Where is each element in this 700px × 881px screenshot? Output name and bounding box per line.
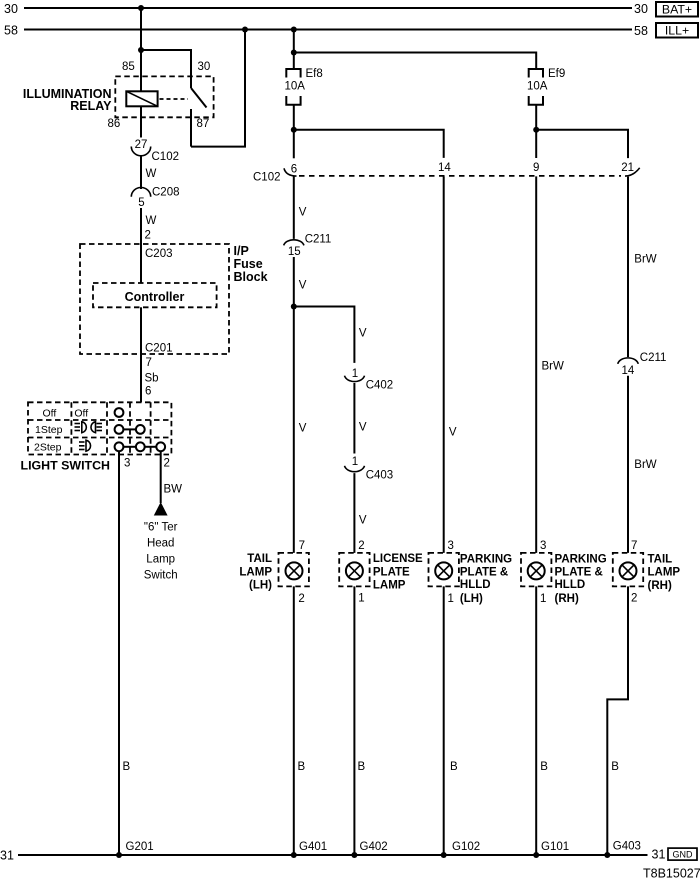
svg-text:V: V (299, 423, 307, 435)
svg-text:30: 30 (634, 2, 648, 16)
svg-text:3: 3 (448, 540, 454, 552)
ground G102 (441, 841, 480, 858)
svg-text:G403: G403 (613, 841, 641, 853)
wire parking LH to G102 (444, 586, 458, 855)
svg-text:5: 5 (138, 197, 144, 209)
light switch column divider 2 (106, 402, 108, 454)
svg-text:1: 1 (352, 456, 358, 468)
wire bus 58 to Ef8 (293, 30, 295, 70)
svg-text:3: 3 (540, 540, 546, 552)
svg-text:LAMP: LAMP (239, 566, 272, 578)
wire W between C102 and C208 (141, 156, 157, 189)
wire light switch pin 3 to G201 (118, 451, 120, 855)
svg-text:2: 2 (298, 593, 304, 605)
svg-text:TAIL: TAIL (247, 553, 272, 565)
svg-text:Switch: Switch (144, 570, 178, 582)
wire W into I/P fuse block pin 2 (141, 208, 157, 244)
svg-text:B: B (298, 761, 306, 773)
svg-text:V: V (449, 427, 457, 439)
ground G201 (116, 841, 154, 858)
ground G101 (533, 841, 569, 858)
wire parking RH to G101 (536, 586, 548, 855)
svg-text:LICENSE: LICENSE (373, 553, 423, 565)
svg-text:7: 7 (146, 357, 152, 369)
light switch column divider 1 (70, 402, 72, 454)
connector row C102 (253, 168, 640, 184)
connector C102 pin 27 (131, 139, 179, 163)
I/P fuse block dashed box (80, 244, 229, 354)
svg-text:V: V (359, 328, 367, 340)
svg-text:HLLD: HLLD (460, 579, 491, 591)
svg-text:B: B (123, 761, 131, 773)
junction relay feed split (138, 47, 144, 53)
svg-text:Ef9: Ef9 (548, 68, 565, 80)
svg-text:(LH): (LH) (249, 579, 272, 591)
lamp PARKING PLATE & HLLD (RH) (521, 540, 607, 605)
svg-text:31: 31 (0, 849, 14, 863)
wire Ef8 to C102 pin 6 (293, 105, 295, 159)
wire relay pin 86 down (140, 106, 142, 137)
fuse Ef9 10A (527, 68, 565, 105)
ground G402 (351, 841, 387, 858)
svg-text:BAT+: BAT+ (662, 3, 692, 17)
label head lamp switch (144, 522, 178, 582)
connector C211 pin 14 (618, 352, 667, 377)
svg-text:21: 21 (621, 162, 634, 174)
lamp LICENSE PLATE LAMP (339, 540, 423, 605)
wire branch to C102 pin 14 (294, 130, 444, 158)
wire Ef9 to C102 pin 9 (535, 105, 537, 158)
svg-text:PLATE &: PLATE & (555, 567, 603, 579)
node ILL+ (656, 23, 698, 38)
ground G403 (604, 841, 641, 858)
svg-text:Fuse: Fuse (234, 257, 263, 271)
svg-text:LIGHT SWITCH: LIGHT SWITCH (21, 459, 111, 473)
svg-text:HLLD: HLLD (555, 579, 586, 591)
svg-text:LAMP: LAMP (373, 579, 406, 591)
label ILLUMINATION RELAY (23, 87, 112, 113)
wire license lamp to G402 (354, 586, 365, 855)
svg-text:G401: G401 (299, 841, 327, 853)
svg-text:PLATE: PLATE (373, 566, 410, 578)
svg-text:1: 1 (358, 593, 364, 605)
svg-text:PLATE &: PLATE & (460, 567, 508, 579)
svg-text:V: V (299, 207, 307, 219)
junction Ef9 branch (291, 50, 297, 56)
svg-text:GND: GND (673, 850, 694, 860)
svg-text:G101: G101 (541, 841, 569, 853)
svg-text:V: V (299, 280, 307, 292)
svg-text:C203: C203 (145, 248, 173, 260)
svg-text:Off: Off (74, 408, 88, 420)
svg-text:V: V (359, 515, 367, 527)
light switch column divider 4 (150, 402, 152, 454)
svg-text:10A: 10A (527, 81, 548, 93)
svg-text:PARKING: PARKING (460, 553, 512, 565)
junction license lamp branch (291, 304, 297, 310)
svg-text:87: 87 (197, 118, 210, 130)
light switch row divider 2 (28, 437, 171, 439)
node arrow to head lamp switch (154, 502, 168, 516)
junction below Ef9 (533, 127, 539, 133)
svg-text:14: 14 (622, 365, 635, 377)
relay coil (126, 91, 157, 106)
svg-text:1Step: 1Step (35, 424, 63, 436)
svg-text:C102: C102 (152, 151, 180, 163)
switch contacts row2 (115, 425, 145, 434)
svg-text:V: V (359, 422, 367, 434)
node BAT+ (656, 2, 698, 17)
wire bus 30 (4, 2, 648, 16)
junction bus58 feed (291, 27, 297, 33)
connector C211 pin 15 (284, 234, 332, 258)
svg-text:B: B (358, 761, 366, 773)
svg-text:RELAY: RELAY (70, 99, 112, 113)
wire light switch pin 2 BW (161, 451, 182, 503)
svg-text:1: 1 (448, 593, 454, 605)
svg-text:9: 9 (533, 162, 539, 174)
wire bus 58 (4, 24, 648, 39)
connector C402 pin 1 (345, 368, 394, 392)
svg-text:1: 1 (352, 368, 358, 380)
light switch column divider 3 (129, 402, 131, 454)
svg-text:B: B (540, 761, 548, 773)
lamp TAIL LAMP (RH) (613, 540, 681, 605)
svg-text:6: 6 (291, 164, 297, 176)
wire branch to Ef9 (294, 53, 536, 70)
svg-text:G402: G402 (360, 841, 388, 853)
svg-text:(RH): (RH) (555, 593, 579, 605)
wire V between C402 and C403 (354, 383, 367, 454)
wire branch to license plate lamp (294, 307, 355, 363)
svg-text:"6" Ter: "6" Ter (144, 522, 178, 534)
light switch S1 dashed box (28, 402, 171, 454)
svg-text:6: 6 (145, 386, 151, 398)
lamp icon row2 (75, 422, 103, 433)
junction on bus 58 at 87 wire (242, 27, 248, 33)
svg-text:C102: C102 (253, 172, 281, 184)
svg-text:BrW: BrW (634, 459, 657, 471)
svg-text:PARKING: PARKING (555, 553, 607, 565)
svg-text:C208: C208 (152, 187, 180, 199)
svg-text:B: B (611, 761, 619, 773)
svg-text:85: 85 (122, 61, 135, 73)
svg-text:10A: 10A (285, 81, 306, 93)
svg-text:7: 7 (631, 540, 637, 552)
svg-text:3: 3 (124, 458, 130, 470)
svg-text:27: 27 (135, 139, 148, 151)
svg-text:58: 58 (4, 24, 18, 38)
wire V from C102 pin 6 (294, 176, 307, 239)
svg-text:7: 7 (299, 540, 305, 552)
svg-text:(LH): (LH) (460, 593, 483, 605)
svg-text:30: 30 (4, 2, 18, 16)
svg-text:BW: BW (164, 484, 183, 496)
svg-text:2: 2 (145, 230, 151, 242)
wire V to license plate lamp (354, 473, 367, 553)
svg-text:C201: C201 (145, 343, 173, 355)
lamp icon row3 (79, 440, 91, 451)
svg-text:ILL+: ILL+ (665, 24, 689, 38)
relay coil-contact dashed link (160, 98, 189, 100)
wire tail lamp LH to G401 (294, 586, 306, 855)
svg-text:G102: G102 (452, 841, 480, 853)
svg-text:(RH): (RH) (648, 580, 672, 592)
svg-text:BrW: BrW (634, 254, 657, 266)
wire tail lamp RH to G403 (607, 586, 628, 855)
wire BrW to tail lamp RH (628, 376, 657, 553)
svg-text:C402: C402 (366, 380, 394, 392)
svg-text:LAMP: LAMP (648, 567, 681, 579)
wire pin 87 to bus 58 (191, 30, 245, 147)
wire controller to light switch (140, 307, 142, 402)
wire C203 to controller (140, 244, 142, 283)
wire C102 pin14 to parking lamp LH (444, 176, 457, 553)
svg-text:TAIL: TAIL (648, 553, 673, 565)
svg-text:B: B (450, 761, 458, 773)
svg-text:31: 31 (652, 848, 666, 862)
svg-text:15: 15 (288, 246, 301, 258)
light switch row divider 1 (28, 419, 171, 421)
svg-text:G201: G201 (126, 841, 154, 853)
wire C102 pin21 BrW (628, 177, 657, 357)
relay U1 dashed box (115, 76, 213, 117)
connector C403 pin 1 (345, 456, 394, 482)
controller dashed box (93, 283, 217, 307)
svg-text:2: 2 (358, 540, 364, 552)
junction on bus 30 (138, 5, 144, 11)
svg-text:Off: Off (43, 408, 57, 420)
svg-text:30: 30 (198, 61, 211, 73)
svg-text:58: 58 (634, 24, 648, 38)
svg-text:Ef8: Ef8 (306, 68, 323, 80)
junction below Ef8 (291, 127, 297, 133)
wire ground bus 31 (0, 848, 665, 863)
lamp PARKING PLATE & HLLD (LH) (429, 540, 513, 605)
ground G401 (291, 841, 327, 858)
svg-text:2: 2 (631, 593, 637, 605)
svg-text:2: 2 (164, 458, 170, 470)
svg-text:Sb: Sb (145, 373, 159, 385)
relay contact arm (191, 88, 207, 108)
svg-text:Controller: Controller (125, 290, 185, 304)
svg-text:1: 1 (540, 593, 546, 605)
switch contacts row3 (115, 442, 166, 451)
switch contact row1 (115, 408, 124, 417)
svg-text:W: W (146, 168, 157, 180)
wire branch to relay pin 30 (141, 50, 191, 88)
wire C102 pin9 BrW to parking lamp RH (536, 176, 564, 553)
wire branch to C102 pin 21 (536, 130, 628, 158)
svg-text:C211: C211 (305, 234, 332, 246)
relay contact lower stub (190, 109, 192, 147)
svg-text:I/P: I/P (234, 244, 249, 258)
node GND (668, 848, 697, 860)
svg-text:BrW: BrW (542, 361, 565, 373)
fuse Ef8 10A (285, 68, 323, 105)
svg-text:86: 86 (108, 118, 121, 130)
label I/P Fuse Block (234, 244, 268, 284)
wire V to tail lamp LH (294, 257, 307, 553)
svg-text:Head: Head (147, 538, 175, 550)
svg-text:C211: C211 (640, 352, 667, 364)
svg-text:Lamp: Lamp (146, 554, 175, 566)
svg-text:2Step: 2Step (34, 442, 62, 454)
lamp TAIL LAMP (LH) (239, 540, 308, 605)
wire bus30 to relay pin 85 (140, 8, 142, 92)
svg-text:W: W (146, 215, 157, 227)
svg-text:Block: Block (234, 270, 268, 284)
svg-text:T8B15027: T8B15027 (643, 867, 700, 881)
svg-text:C403: C403 (366, 470, 394, 482)
connector C208 pin 5 (131, 187, 179, 210)
svg-text:14: 14 (438, 162, 451, 174)
